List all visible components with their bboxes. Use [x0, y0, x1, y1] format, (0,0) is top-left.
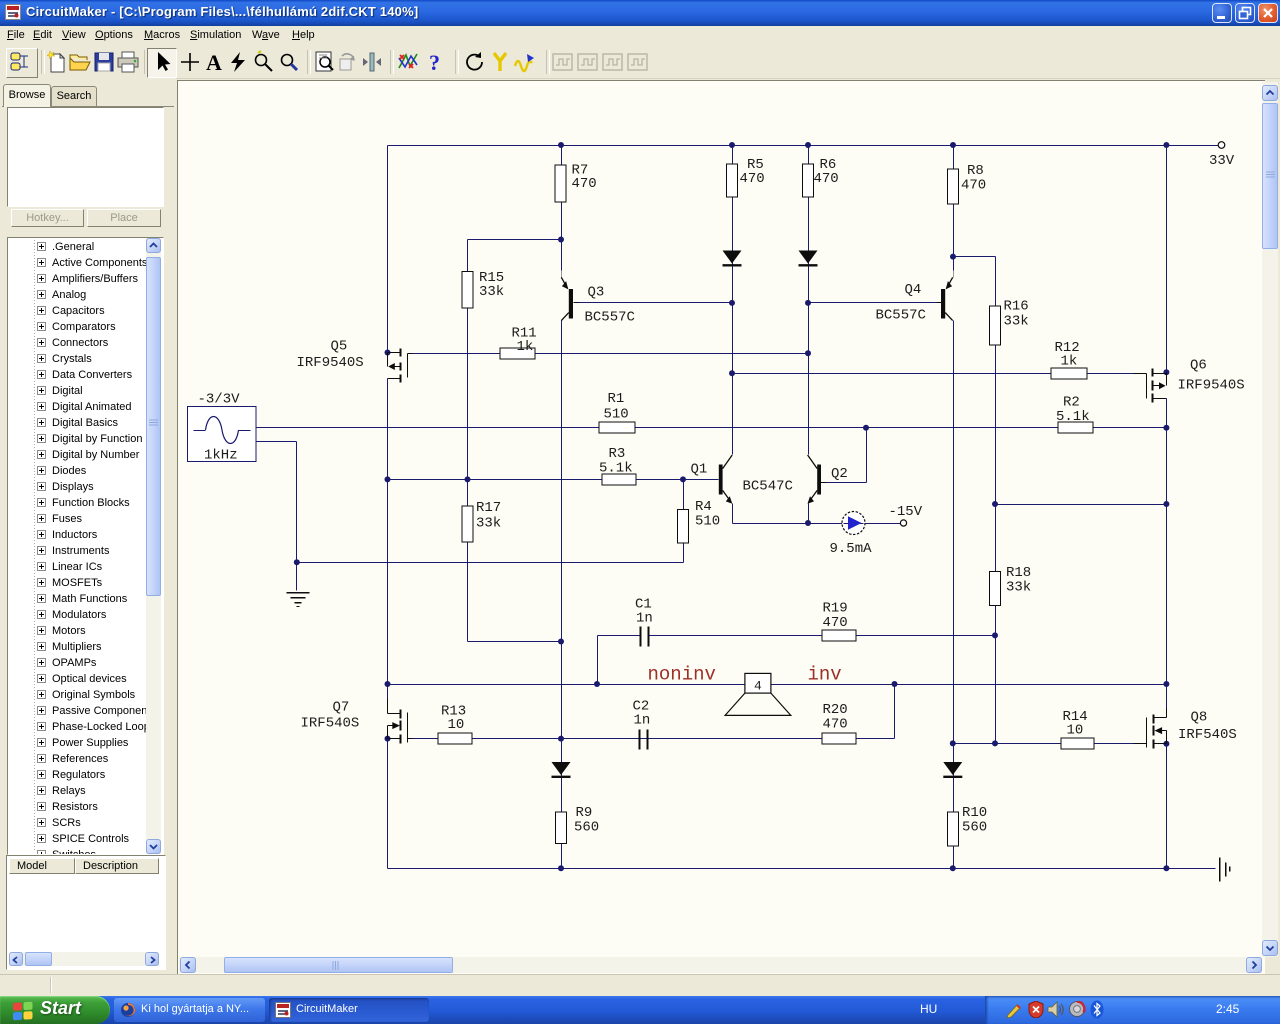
node R18-end: [992, 740, 998, 746]
node rail-R6: [805, 142, 811, 148]
wire ground row (source box return): [257, 442, 684, 591]
node rail-R8: [950, 142, 956, 148]
resistor R8: [948, 169, 959, 204]
resistor R17: [462, 506, 473, 542]
wire Q2 base riser: [825, 428, 867, 483]
capacitor C1: [640, 627, 642, 647]
wire lead break above Q3 emitter: [561, 271, 563, 278]
svg-text:Q8: Q8: [1191, 710, 1208, 726]
wire noninv/inv output row: [388, 684, 1167, 686]
svg-text:1n: 1n: [636, 611, 653, 627]
node rail-R7: [558, 142, 564, 148]
resistor R13: [438, 733, 472, 744]
svg-text:470: 470: [823, 717, 848, 733]
svg-text:Q3: Q3: [588, 285, 605, 301]
wire emitters to current source: [733, 523, 843, 525]
node Q7-source: [385, 736, 391, 742]
diode D1: [723, 251, 742, 264]
svg-text:-3/3V: -3/3V: [198, 392, 241, 408]
svg-text:33k: 33k: [1004, 314, 1029, 330]
wire R14 row (to Q8 gate): [953, 743, 1134, 745]
resistor R18: [990, 572, 1001, 606]
resistor R16: [990, 306, 1001, 345]
resistor R4: [678, 510, 689, 544]
node rail-Q6: [1163, 142, 1169, 148]
node R2-end: [1163, 425, 1169, 431]
svg-text:1k: 1k: [1061, 354, 1078, 370]
node R1-R2-Q2base: [863, 425, 869, 431]
resistor R9: [556, 812, 567, 844]
node gnd-R9: [558, 865, 564, 871]
svg-text:IRF9540S: IRF9540S: [1178, 378, 1245, 394]
node source-gnd: [294, 559, 300, 565]
terminal 33V: [1218, 142, 1225, 149]
wire Q1 emitter down: [732, 504, 734, 524]
source V1 -3/3V 1kHz: [188, 407, 257, 462]
node emitter-node: [805, 520, 811, 526]
resistor R5: [727, 164, 738, 197]
svg-text:5.1k: 5.1k: [1056, 409, 1090, 425]
node row479-R17: [465, 476, 471, 482]
svg-text:10: 10: [448, 717, 465, 733]
wire R5/D1/Q1 column: [732, 146, 734, 455]
ground (source return): [287, 593, 310, 607]
node R3-R4-Q1base: [680, 476, 686, 482]
resistor R7: [555, 165, 566, 202]
wire R20 riser to inv row: [894, 685, 896, 739]
svg-text:10: 10: [1067, 723, 1084, 739]
wire R6/D2/Q2 column: [808, 146, 810, 455]
resistor R20: [822, 733, 856, 744]
svg-text:470: 470: [814, 171, 839, 187]
svg-text:560: 560: [962, 820, 987, 836]
svg-text:470: 470: [961, 178, 986, 194]
node D1-Q3base: [729, 300, 735, 306]
svg-text:510: 510: [604, 407, 629, 423]
wire left column (Q5 branch): [387, 146, 389, 353]
node Q6-source: [1163, 369, 1169, 375]
node R12-start: [729, 370, 735, 376]
node inv-right: [1163, 681, 1169, 687]
diode D4: [943, 762, 962, 775]
node gnd-Q8: [1163, 865, 1169, 871]
resistor R3: [602, 474, 636, 485]
svg-text:R1: R1: [608, 391, 625, 407]
svg-text:noninv: noninv: [648, 664, 716, 686]
node R19-end: [992, 632, 998, 638]
svg-text:9.5mA: 9.5mA: [830, 541, 873, 557]
svg-text:Q2: Q2: [831, 466, 848, 482]
wire current source to -15V terminal: [865, 523, 901, 525]
svg-text:IRF540S: IRF540S: [301, 716, 360, 732]
node R8-R16: [950, 254, 956, 260]
speaker LS1 (4 ohm): [725, 673, 791, 715]
svg-text:510: 510: [695, 514, 720, 530]
svg-text:BC547C: BC547C: [743, 479, 793, 495]
wire C1 branch riser: [597, 636, 599, 685]
wire Q6/Q8 output column: [1166, 146, 1168, 373]
wire top supply rail 33V: [388, 145, 1219, 147]
transistor Q4 BC557C: [937, 277, 953, 320]
svg-text:A: A: [206, 50, 222, 74]
wire Q2 emitter down: [808, 504, 810, 524]
svg-text:33k: 33k: [1006, 580, 1031, 596]
node row479-left: [385, 476, 391, 482]
mosfet Q8 IRF540S: [1134, 708, 1167, 749]
diode D3: [552, 762, 571, 775]
ground (bottom right): [1220, 858, 1230, 882]
wire R1/R2 row (source to Q6 drain): [257, 427, 1167, 429]
svg-text:470: 470: [572, 176, 597, 192]
wire R7/Q3 column: [561, 146, 563, 278]
svg-text:?: ?: [429, 50, 440, 74]
resistor R6: [803, 164, 814, 197]
resistor R14: [1061, 738, 1094, 749]
node R11-end: [805, 350, 811, 356]
wire R3 row (Q1 base): [388, 479, 719, 481]
node R13-D3: [558, 736, 564, 742]
svg-text:1kHz: 1kHz: [204, 448, 238, 464]
node Q5-source: [385, 350, 391, 356]
mosfet Q6 IRF9540S: [1134, 369, 1167, 403]
svg-text:33V: 33V: [1209, 153, 1235, 169]
svg-text:Q6: Q6: [1190, 358, 1207, 374]
mosfet Q7 IRF540S: [388, 699, 413, 744]
resistor R10: [947, 812, 958, 846]
wire R8 to R16 corner: [954, 257, 996, 744]
wire R16/R18 to Q6 column row: [996, 504, 1167, 506]
svg-text:BC557C: BC557C: [876, 308, 926, 324]
wire R12 row (D1 node to Q6 gate): [733, 373, 1134, 375]
node gnd-R10: [950, 865, 956, 871]
resistor R12: [1051, 368, 1087, 379]
transistor Q1 BC547C: [719, 455, 733, 504]
resistor R1: [599, 422, 635, 433]
node Q8-source: [1163, 741, 1169, 747]
resistor R15: [462, 272, 473, 309]
svg-text:Q4: Q4: [905, 282, 922, 298]
node noninv-left: [385, 681, 391, 687]
svg-text:IRF540S: IRF540S: [1178, 727, 1237, 743]
svg-text:470: 470: [823, 615, 848, 631]
current source I1 9.5mA: [842, 512, 865, 535]
svg-text:Q7: Q7: [333, 700, 350, 716]
svg-text:BC557C: BC557C: [585, 310, 635, 326]
svg-text:inv: inv: [808, 664, 842, 686]
resistor R2: [1058, 422, 1093, 433]
node R7-R15: [558, 237, 564, 243]
wire R11 row (Q5 gate to Q2 column): [412, 353, 809, 355]
mosfet Q5 IRF9540S: [388, 349, 413, 383]
svg-text:4: 4: [754, 679, 762, 694]
svg-text:560: 560: [574, 820, 599, 836]
resistor R11: [500, 348, 535, 359]
svg-text:-15V: -15V: [889, 504, 923, 520]
transistor Q2 BC547C: [808, 455, 827, 504]
svg-text:33k: 33k: [476, 516, 501, 532]
wire bottom ground rail: [388, 868, 1216, 870]
node rail-R5: [729, 142, 735, 148]
svg-text:1k: 1k: [517, 339, 534, 355]
wire R17 bottom corner: [468, 641, 562, 643]
wire Q4 base to D2 node: [809, 302, 938, 304]
wire lead break above Q4 emitter: [953, 271, 955, 278]
node row504-end: [1163, 501, 1169, 507]
wire C1/R19 row: [598, 635, 996, 637]
svg-text:470: 470: [740, 171, 765, 187]
svg-text:IRF9540S: IRF9540S: [297, 355, 364, 371]
resistor R19: [822, 630, 856, 641]
wire R15 corner: [468, 240, 562, 642]
svg-text:33k: 33k: [479, 284, 504, 300]
node R17-branch: [558, 639, 564, 645]
node C1-branch: [594, 681, 600, 687]
capacitor C2: [639, 730, 641, 750]
node R14-start: [950, 740, 956, 746]
wire R8/Q4 column: [953, 146, 955, 278]
node inv-R20: [892, 681, 898, 687]
wire Q3 base to D1 node: [578, 302, 733, 304]
node R16-R18: [992, 501, 998, 507]
diode D2: [799, 251, 818, 264]
svg-text:1n: 1n: [634, 713, 651, 729]
transistor Q3 BC557C: [561, 277, 578, 320]
svg-text:5.1k: 5.1k: [599, 461, 633, 477]
svg-text:R16: R16: [1004, 299, 1029, 315]
terminal -15V: [900, 520, 906, 526]
svg-text:Q5: Q5: [331, 339, 348, 355]
wire Q7 gate to R13/C2/R20 row: [412, 738, 895, 740]
svg-text:R17: R17: [476, 500, 501, 516]
svg-text:Q1: Q1: [691, 462, 708, 478]
node D2-Q4base: [805, 300, 811, 306]
